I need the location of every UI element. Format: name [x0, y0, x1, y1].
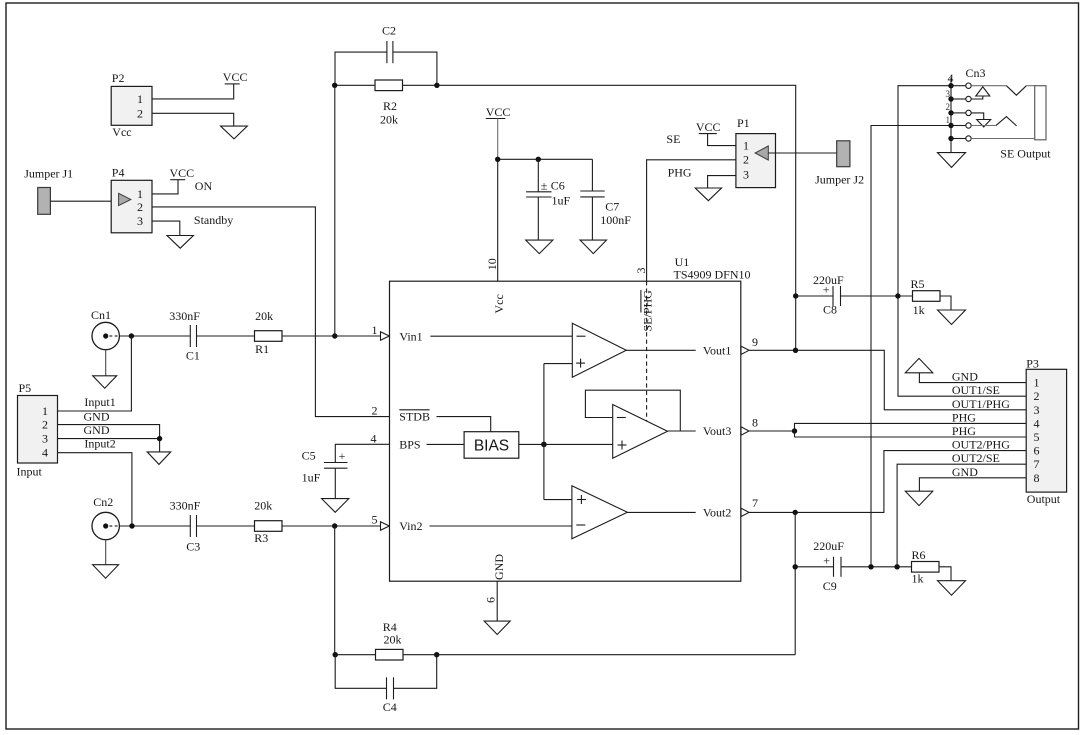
- svg-text:4: 4: [371, 431, 377, 445]
- svg-text:GND: GND: [952, 465, 978, 479]
- svg-text:PHG: PHG: [952, 424, 976, 438]
- svg-text:BIAS: BIAS: [474, 437, 509, 454]
- svg-text:2: 2: [946, 102, 951, 112]
- resistor R1: [255, 309, 283, 356]
- svg-text:Input1: Input1: [84, 395, 115, 409]
- connector P4: [111, 165, 152, 232]
- svg-text:20k: 20k: [255, 309, 273, 323]
- svg-text:1k: 1k: [913, 303, 925, 317]
- wire Vout2 to P3 pin6 (OUT2/PHG): [749, 451, 1026, 513]
- wire OUT2 ring column (Cn3 ring to C9 node): [871, 126, 951, 567]
- svg-text:6: 6: [1034, 444, 1040, 458]
- svg-text:C1: C1: [186, 348, 200, 362]
- svg-text:1: 1: [1034, 376, 1040, 390]
- svg-text:GND: GND: [492, 554, 506, 580]
- node Vout1 feedback junction: [793, 348, 798, 353]
- svg-text:2: 2: [42, 418, 48, 432]
- wire op-amp B feedback loop: [585, 390, 680, 431]
- svg-text:C3: C3: [186, 539, 200, 553]
- ground (Cn3): [938, 153, 966, 168]
- svg-text:Jumper J1: Jumper J1: [24, 167, 73, 181]
- node C9 left junction: [793, 564, 798, 569]
- svg-text:Cn3: Cn3: [966, 66, 986, 80]
- svg-text:1: 1: [372, 323, 378, 337]
- connector P5: [17, 381, 58, 479]
- svg-text:330nF: 330nF: [170, 498, 201, 512]
- svg-text:3: 3: [634, 268, 648, 274]
- svg-text:±: ±: [541, 178, 548, 192]
- wire OUT1/SE column (Cn3 tip to C8/R5 node to P3 pin2): [898, 86, 1026, 397]
- svg-text:Input2: Input2: [84, 436, 115, 450]
- ground (R6): [938, 581, 966, 596]
- wire VCC to P1 pin1: [708, 134, 736, 146]
- ground (P3 pin8): [905, 491, 933, 505]
- power VCC (P2): [223, 70, 248, 84]
- wire BIAS output to op-amp B: [519, 443, 613, 445]
- svg-text:C9: C9: [823, 579, 837, 593]
- svg-text:VCC: VCC: [170, 166, 195, 180]
- jack tip contact with switch: [971, 85, 1006, 87]
- ground (R5): [938, 310, 966, 325]
- wire P2 pin2 to ground: [152, 113, 234, 126]
- svg-text:4: 4: [42, 446, 48, 460]
- svg-text:P2: P2: [112, 71, 125, 85]
- svg-text:R6: R6: [912, 548, 926, 562]
- wire bias bus to op-amp A non-inverting input: [544, 363, 572, 365]
- wire C2/R2 node down to Vin1: [334, 85, 336, 336]
- svg-text:SE/PHG: SE/PHG: [641, 290, 655, 332]
- wire bias bus vertical: [543, 364, 545, 500]
- node STDB label with overline: [399, 410, 430, 424]
- svg-text:OUT2/PHG: OUT2/PHG: [952, 438, 1010, 452]
- ground (C7): [580, 240, 606, 254]
- wire P4 pin1 to VCC: [152, 180, 178, 194]
- ground (P1 PHG): [695, 188, 721, 201]
- wire P5 pin4 to Cn2 node: [58, 453, 132, 526]
- node Vin1 junction: [332, 333, 337, 338]
- capacitor C5: [302, 449, 348, 499]
- wire Cn2 to C3: [119, 525, 190, 527]
- svg-text:Jumper J2: Jumper J2: [815, 173, 864, 187]
- svg-text:BPS: BPS: [399, 437, 420, 451]
- svg-text:Input: Input: [17, 465, 43, 479]
- resistor R6: [912, 548, 940, 586]
- wire Vout1 to P3 pin3 (OUT1/PHG): [749, 350, 1026, 410]
- svg-text:1: 1: [743, 139, 749, 153]
- power VCC (rail): [486, 105, 511, 119]
- svg-text:VCC: VCC: [223, 70, 248, 84]
- jumper J2: [815, 141, 864, 187]
- svg-text:+: +: [823, 553, 830, 567]
- node C8 left junction: [793, 293, 798, 298]
- ground up (P3 pin1): [905, 358, 933, 372]
- ground (P5): [147, 452, 171, 465]
- svg-text:C8: C8: [823, 303, 837, 317]
- svg-text:8: 8: [1034, 471, 1040, 485]
- svg-text:2: 2: [137, 106, 143, 120]
- wire C1 to R1: [197, 335, 255, 337]
- svg-text:3: 3: [1034, 403, 1040, 417]
- wire C9 row: [795, 566, 833, 568]
- svg-text:PHG: PHG: [668, 165, 692, 179]
- svg-text:+: +: [339, 449, 346, 463]
- capacitor C8: [813, 273, 844, 317]
- svg-text:3: 3: [743, 167, 749, 181]
- svg-text:20k: 20k: [384, 633, 402, 647]
- jack tip arrow: [971, 96, 983, 99]
- ground (P2): [221, 126, 248, 139]
- wire Cn2 to ground: [105, 540, 107, 565]
- wire Cn1 to C1: [119, 335, 190, 337]
- svg-text:1: 1: [42, 404, 48, 418]
- svg-text:Vin2: Vin2: [399, 519, 422, 533]
- svg-text:C2: C2: [382, 23, 396, 37]
- svg-text:Output: Output: [1027, 492, 1061, 506]
- svg-text:Cn1: Cn1: [91, 308, 111, 322]
- wire P3 pin1 GND: [919, 373, 1026, 383]
- svg-text:2: 2: [743, 153, 749, 167]
- capacitor C7: [580, 159, 631, 240]
- connector P3: [1026, 356, 1066, 506]
- ground (Cn2): [93, 565, 119, 579]
- jack sleeve bar: [1035, 86, 1046, 140]
- svg-text:1: 1: [137, 92, 143, 106]
- wire pin 6 stub: [496, 581, 498, 621]
- wire C4 loop: [335, 655, 386, 689]
- pin 9: [741, 346, 749, 354]
- svg-text:6: 6: [484, 597, 498, 603]
- node C8/R5 junction: [895, 293, 900, 298]
- wire P1 pin1 arrow to jumper J2: [768, 152, 836, 154]
- capacitor C1: [169, 309, 200, 362]
- svg-text:Vcc: Vcc: [112, 125, 131, 139]
- wire P1 pin3 to ground: [708, 176, 736, 188]
- jumper J1: [24, 167, 73, 215]
- wire P5 pin2: [58, 425, 160, 439]
- svg-text:8: 8: [752, 415, 758, 429]
- node left R2/C2 junction: [332, 83, 337, 88]
- resistor R3: [254, 498, 282, 544]
- power VCC (P1): [696, 120, 721, 134]
- svg-text:SE: SE: [666, 132, 680, 146]
- pin 7: [741, 508, 749, 516]
- svg-text:TS4909 DFN10: TS4909 DFN10: [674, 267, 751, 281]
- wire Vout2 down to C9 and R4: [794, 512, 796, 654]
- svg-text:OUT1/PHG: OUT1/PHG: [952, 397, 1010, 411]
- wire STDB to BIAS: [437, 417, 491, 432]
- svg-text:20k: 20k: [254, 498, 272, 512]
- svg-text:7: 7: [1034, 457, 1040, 471]
- node C9 ring junction: [868, 564, 873, 569]
- wire P5 pin3: [58, 439, 160, 452]
- resistor R5: [911, 277, 941, 317]
- svg-text:2: 2: [1034, 389, 1040, 403]
- wire P5 pin1 to Cn1 node: [58, 336, 132, 411]
- op-amp A (Vout1): [572, 323, 626, 377]
- wire R4 row: [335, 654, 376, 656]
- wire feedback top rail to Vout1 column: [437, 85, 796, 350]
- connector Cn1: [91, 308, 119, 350]
- svg-text:SE Output: SE Output: [1000, 146, 1051, 160]
- svg-text:C7: C7: [605, 199, 619, 213]
- svg-text:3: 3: [137, 214, 143, 228]
- svg-text:P5: P5: [19, 381, 32, 395]
- svg-text:C5: C5: [302, 449, 316, 463]
- svg-text:20k: 20k: [380, 113, 398, 127]
- svg-text:Cn2: Cn2: [93, 495, 113, 509]
- svg-text:+: +: [823, 283, 830, 297]
- svg-text:PHG: PHG: [952, 410, 976, 424]
- wire Vout3 to PHG pins: [749, 430, 795, 432]
- node VCC rail junction: [495, 157, 500, 162]
- svg-text:OUT1/SE: OUT1/SE: [952, 383, 1000, 397]
- svg-text:1: 1: [137, 187, 143, 201]
- wire pin10 stub: [497, 159, 499, 281]
- svg-text:330nF: 330nF: [169, 309, 200, 323]
- svg-text:R1: R1: [255, 342, 269, 356]
- wire PHG split to P3 pin5: [795, 436, 1027, 438]
- svg-text:C4: C4: [383, 700, 397, 714]
- svg-text:4: 4: [1034, 416, 1040, 430]
- connector Cn2: [92, 495, 119, 540]
- svg-text:VCC: VCC: [696, 120, 721, 134]
- wire P2 pin1 to VCC: [152, 84, 234, 99]
- wire P1 pin2 to U1 pin3: [647, 160, 736, 281]
- svg-text:C6: C6: [551, 179, 565, 193]
- svg-text:STDB: STDB: [399, 410, 430, 424]
- svg-text:R3: R3: [254, 531, 268, 545]
- capacitor C4: [383, 677, 397, 714]
- node C9/R6 junction: [894, 564, 899, 569]
- node Vin2 junction: [332, 523, 337, 528]
- svg-text:Vout2: Vout2: [703, 505, 731, 519]
- capacitor C2: [382, 23, 396, 63]
- wire BPS to BIAS: [427, 443, 465, 445]
- connector Cn3: [946, 66, 986, 153]
- wire VCC stub: [497, 119, 499, 160]
- svg-text:1uF: 1uF: [552, 194, 571, 208]
- connector P2: [111, 71, 152, 139]
- svg-text:Vin1: Vin1: [399, 330, 422, 344]
- wire R5 to ground: [940, 296, 951, 310]
- svg-text:9: 9: [752, 335, 758, 349]
- svg-text:GND: GND: [84, 410, 110, 424]
- node right R2/C2 junction: [434, 83, 439, 88]
- svg-text:100nF: 100nF: [600, 213, 631, 227]
- ground (U1 pin6): [484, 621, 510, 634]
- svg-text:P3: P3: [1026, 356, 1039, 370]
- wire BPS pin4 to C5: [335, 444, 389, 462]
- resistor R2: [375, 80, 403, 127]
- svg-text:1uF: 1uF: [302, 471, 321, 485]
- svg-text:R2: R2: [383, 99, 397, 113]
- wire P3 pin8 GND: [919, 478, 1026, 491]
- svg-text:2: 2: [372, 404, 378, 418]
- svg-text:3: 3: [42, 432, 48, 446]
- node P5 ground junction: [157, 436, 162, 441]
- svg-text:Vout3: Vout3: [703, 424, 731, 438]
- wire C8 row: [796, 295, 833, 297]
- ground (Cn1): [93, 376, 117, 388]
- wire R1 to U1 pin1: [282, 335, 381, 337]
- jack sleeve wire: [971, 138, 1034, 140]
- svg-text:2: 2: [137, 200, 143, 214]
- resistor R4: [376, 620, 404, 660]
- svg-text:VCC: VCC: [486, 105, 511, 119]
- wire op-amp A output: [626, 349, 695, 351]
- jack ring contact with switch: [971, 125, 996, 127]
- wire R6 to ground: [939, 567, 951, 581]
- wire Vin1 to op-amp A inverting input: [430, 335, 572, 337]
- wire R3 to U1 pin5: [282, 525, 381, 527]
- wire PHG split to P3 pin4: [795, 423, 1027, 437]
- wire P4 pin2 to STDB pin 2 of U1: [152, 207, 390, 417]
- connector P1: [736, 116, 776, 188]
- svg-text:GND: GND: [952, 370, 978, 384]
- node R4 right junction: [434, 652, 439, 657]
- svg-text:R5: R5: [911, 277, 925, 291]
- wire op-amp B output: [668, 430, 696, 432]
- wire Vin2 node to R4: [334, 526, 336, 655]
- node BIAS output junction: [541, 442, 547, 448]
- svg-text:OUT2/SE: OUT2/SE: [952, 451, 1000, 465]
- wire R2 row: [335, 84, 375, 86]
- block BIAS: [464, 432, 519, 459]
- wire bias bus to op-amp C non-inverting input: [544, 499, 572, 501]
- wire op-amp C output: [627, 511, 695, 513]
- power VCC (P4 ON): [170, 166, 195, 180]
- svg-text:220uF: 220uF: [813, 539, 844, 553]
- wire Cn1 to ground: [105, 350, 107, 376]
- svg-text:5: 5: [1034, 430, 1040, 444]
- ground (C5): [322, 499, 349, 513]
- wire SE/PHG dashed select line: [646, 281, 648, 431]
- jack ring arrow: [971, 113, 984, 120]
- op-amp U1 TS4909: [390, 255, 751, 581]
- svg-text:GND: GND: [84, 423, 110, 437]
- svg-text:5: 5: [372, 513, 378, 527]
- wire P4 pin3 to ground: [152, 221, 180, 235]
- wire C2 loop: [335, 52, 387, 85]
- wire J1 to P4: [50, 200, 111, 202]
- node R4 left junction: [333, 652, 338, 657]
- node Cn2/Input2 junction: [129, 523, 134, 528]
- capacitor C9: [813, 539, 844, 593]
- pin 8: [741, 427, 749, 435]
- svg-text:P4: P4: [112, 165, 125, 179]
- wire C3 to R3: [197, 525, 255, 527]
- capacitor C6: [526, 159, 570, 240]
- svg-text:P1: P1: [737, 116, 750, 130]
- wire Vin2 to op-amp C inverting input: [430, 525, 572, 527]
- ground (C6): [526, 240, 553, 254]
- node Cn1/Input1 junction: [129, 333, 134, 338]
- svg-text:10: 10: [485, 258, 499, 270]
- node C6 junction: [536, 157, 541, 162]
- svg-text:Vout1: Vout1: [703, 343, 731, 357]
- svg-text:1k: 1k: [912, 572, 924, 586]
- op-amp C (Vout2): [572, 486, 628, 539]
- ground (P4 Standby): [167, 236, 193, 249]
- op-amp B (Vout3) with feedback: [613, 405, 668, 459]
- capacitor C3: [170, 498, 201, 553]
- svg-text:Standby: Standby: [194, 213, 233, 227]
- wire VCC rail: [498, 158, 593, 160]
- svg-text:Vcc: Vcc: [492, 294, 506, 313]
- node Vout2 junction: [793, 510, 798, 515]
- svg-text:ON: ON: [195, 179, 213, 193]
- wire OUT2/SE to P3 pin7: [897, 464, 1026, 567]
- svg-text:7: 7: [752, 496, 758, 510]
- node Vout3 junction: [792, 428, 797, 433]
